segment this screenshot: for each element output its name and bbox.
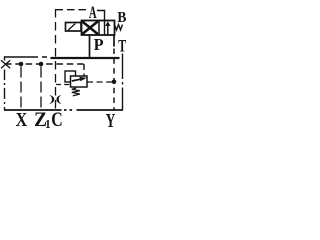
relief valve spring <box>72 87 80 96</box>
label B <box>118 12 127 22</box>
valve divider <box>98 21 100 36</box>
wire T solid part <box>113 35 115 47</box>
wire P (valve to rail) <box>89 35 91 58</box>
enclosure bottom edge <box>4 109 123 111</box>
label Z1 <box>35 113 46 127</box>
orifice on C line <box>50 95 54 104</box>
label X <box>16 113 27 126</box>
directional valve U1 body <box>82 21 115 36</box>
junction dot node Y <box>112 80 117 85</box>
enclosure right edge <box>122 54 124 111</box>
pilot line X (horizontal dashed) <box>5 63 84 65</box>
label P <box>94 39 103 50</box>
wire T/Y dashed down <box>113 49 115 111</box>
wire relief input from C line <box>56 84 71 86</box>
label A <box>89 7 97 19</box>
label T <box>119 40 127 52</box>
relief valve V1 back square <box>65 71 76 82</box>
solenoid Z body <box>66 23 82 32</box>
Z1 column wire <box>40 67 42 111</box>
junction dot node Z1 <box>39 62 44 67</box>
valve right square up-arrow <box>107 25 109 35</box>
relief valve arrow <box>72 79 80 81</box>
label C <box>52 113 62 127</box>
pilot arrow X (star at enclosure edge) <box>1 60 10 68</box>
C column wire (from top corner through orifice) <box>55 9 57 110</box>
junction dot node X <box>19 62 24 67</box>
relief valve V1 front square <box>71 76 88 87</box>
valve spring W <box>115 25 123 31</box>
pilot line turn down to relief valve <box>83 64 85 76</box>
X column wire <box>20 67 22 111</box>
enclosure top edge <box>5 56 48 58</box>
solenoid diagonal <box>68 24 75 30</box>
enclosure left edge <box>4 56 6 110</box>
pilot line A (top, dashed to valve) <box>56 9 87 11</box>
valve left square X (blocked) <box>82 21 98 34</box>
label Y <box>106 114 115 127</box>
wire A to valve <box>97 11 105 35</box>
wire relief drain to Y line <box>87 81 112 83</box>
